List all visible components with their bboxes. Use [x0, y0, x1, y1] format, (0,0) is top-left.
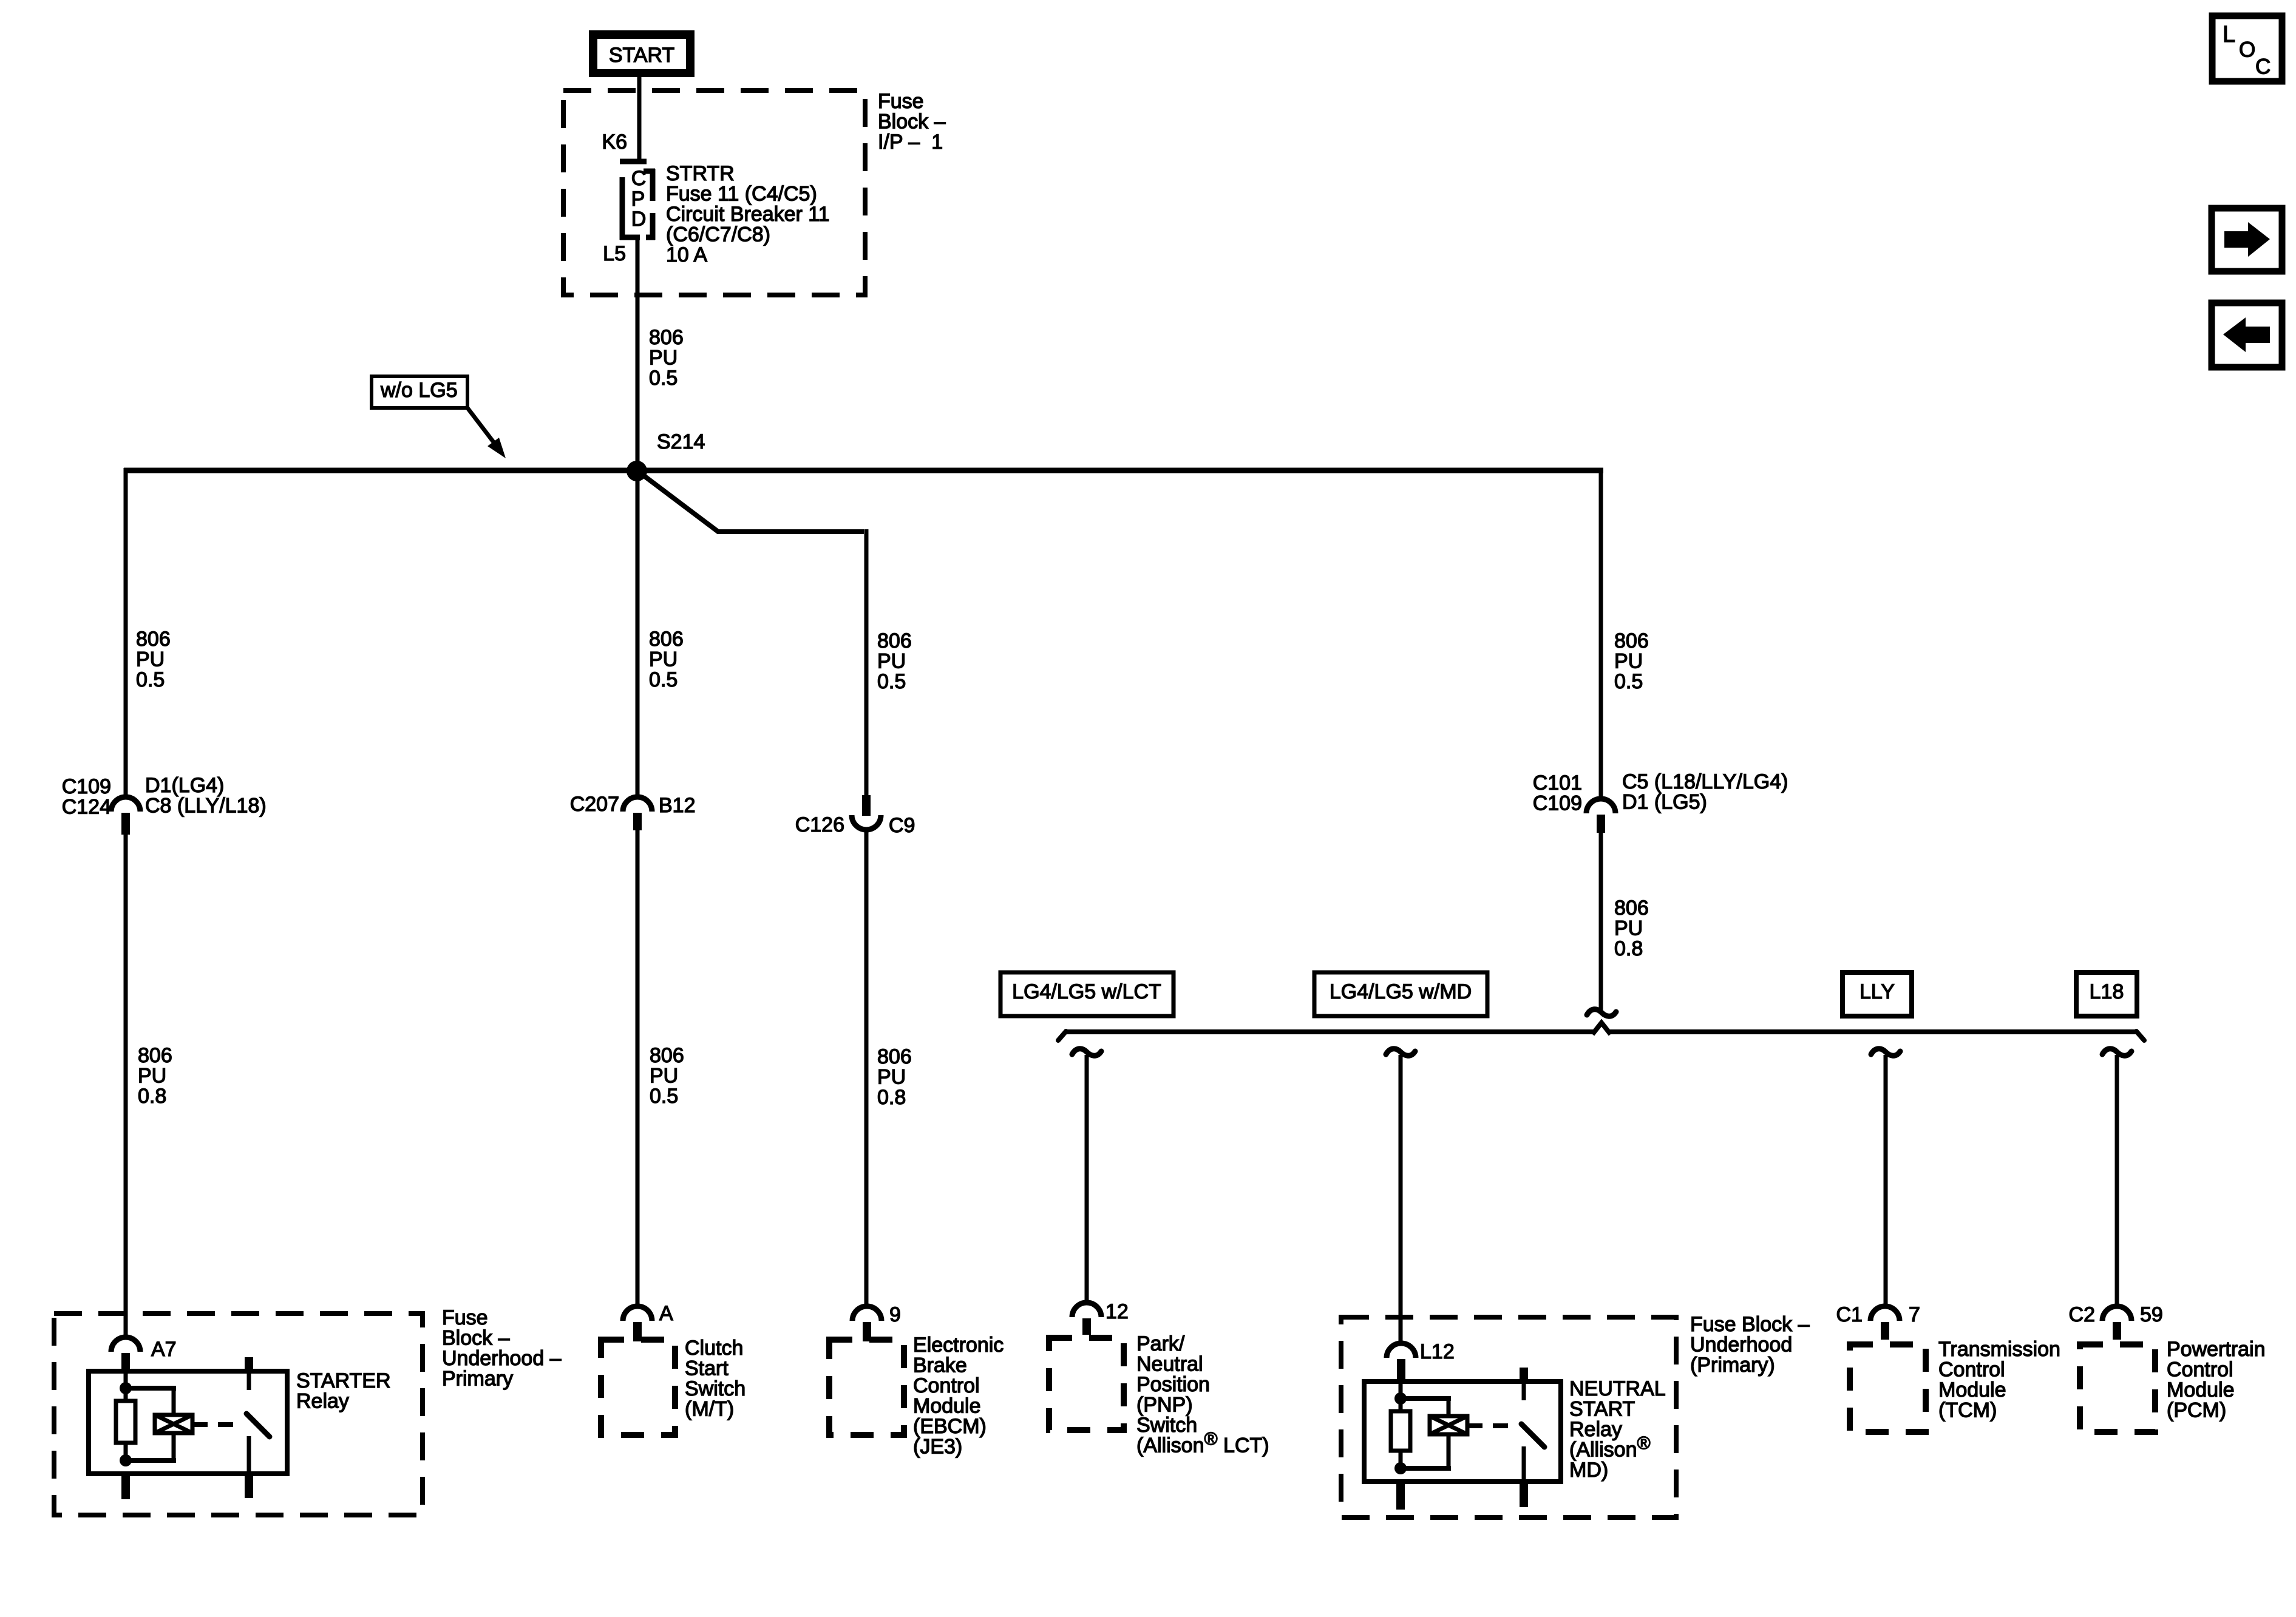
svg-text:Underhood: Underhood	[1690, 1334, 1792, 1357]
label 806 PU 0.5 (right branch)	[1614, 629, 1649, 693]
svg-text:B12: B12	[659, 794, 696, 817]
svg-text:C: C	[631, 167, 647, 190]
svg-text:PU: PU	[877, 1066, 906, 1089]
svg-text:Control: Control	[2167, 1358, 2233, 1381]
svg-text:PU: PU	[649, 648, 678, 671]
svg-text:Start: Start	[685, 1357, 729, 1380]
svg-text:806: 806	[649, 628, 684, 651]
svg-text:L5: L5	[603, 242, 626, 265]
wire bus drop to PCM	[2115, 1055, 2119, 1306]
svg-text:Switch: Switch	[685, 1377, 746, 1400]
svg-text:806: 806	[1614, 629, 1649, 653]
svg-text:Fuse: Fuse	[878, 90, 924, 113]
option box LLY	[1843, 972, 1912, 1016]
svg-text:0.8: 0.8	[877, 1086, 906, 1109]
svg-text:Fuse Block –: Fuse Block –	[1690, 1313, 1810, 1336]
svg-text:7: 7	[1909, 1303, 1920, 1326]
svg-text:C101: C101	[1533, 771, 1582, 795]
component TCM (dashed box)	[1850, 1344, 1926, 1432]
label D1(LG4) C8 (LLY/L18)	[145, 774, 267, 818]
svg-text:806: 806	[138, 1044, 172, 1067]
component Clutch Start Switch (dashed box)	[601, 1340, 675, 1435]
svg-text:0.5: 0.5	[649, 367, 678, 390]
svg-text:9: 9	[889, 1303, 901, 1326]
svg-text:Relay: Relay	[296, 1390, 349, 1413]
relay K - STARTER Relay	[89, 1371, 287, 1474]
svg-text:(Primary): (Primary)	[1690, 1354, 1775, 1377]
svg-text:PU: PU	[650, 1065, 678, 1088]
wire 806 PU to A7	[124, 835, 128, 1338]
svg-text:0.8: 0.8	[138, 1085, 166, 1108]
label NEUTRAL START Relay (Allison MD)	[1569, 1377, 1666, 1482]
svg-text:Control: Control	[1938, 1358, 2005, 1381]
svg-text:PU: PU	[136, 648, 165, 671]
svg-text:Block –: Block –	[878, 110, 946, 134]
svg-text:C109: C109	[62, 775, 111, 798]
label 806 PU 0.5	[649, 326, 684, 390]
bus connection bump at 806 PU joint	[1592, 1022, 1611, 1035]
label Fuse Block - I/P - 1	[878, 90, 946, 154]
component PCM (dashed box)	[2080, 1344, 2155, 1432]
wire 806 PU from fuse block to splice S214	[636, 240, 640, 470]
splice S214 junction dot	[627, 461, 647, 481]
svg-text:(JE3): (JE3)	[913, 1436, 962, 1459]
connector C126 pin C9	[852, 795, 881, 830]
wire diagonal from S214 to EBCM branch	[637, 470, 864, 532]
svg-text:PU: PU	[1614, 650, 1643, 673]
nav box arrow right	[2212, 208, 2282, 271]
label STRTR Fuse 11 ratings	[666, 162, 830, 266]
label C109 C124	[62, 775, 111, 819]
svg-text:Control: Control	[913, 1374, 980, 1397]
svg-text:NEUTRAL: NEUTRAL	[1569, 1377, 1666, 1400]
fuse STRTR Fuse 11 / Circuit Breaker 11 (CPD symbol)	[620, 159, 656, 240]
svg-text:L18: L18	[2090, 980, 2124, 1003]
connector C2 terminal 59	[2102, 1306, 2131, 1340]
label 806 PU 0.5 (middle branch)	[649, 628, 684, 691]
label Park/Neutral Position (PNP) Switch (Allison LCT)	[1136, 1332, 1269, 1457]
svg-text:L: L	[2223, 22, 2235, 47]
callout box w/o LG5	[372, 376, 467, 408]
svg-text:Underhood –: Underhood –	[442, 1347, 562, 1370]
splice tilde on PCM drop	[2102, 1049, 2131, 1056]
component EBCM (dashed box)	[829, 1340, 904, 1435]
svg-text:C207: C207	[570, 793, 619, 816]
svg-text:Fuse: Fuse	[442, 1306, 488, 1329]
wire left branch down to C109/C124	[124, 468, 128, 798]
svg-text:12: 12	[1106, 1300, 1129, 1323]
LOC legend box	[2212, 16, 2282, 81]
svg-text:w/o LG5: w/o LG5	[380, 379, 458, 402]
wire bus drop to PNP switch	[1085, 1055, 1089, 1303]
svg-text:Powertrain: Powertrain	[2167, 1338, 2266, 1361]
starter relay bottom switch post	[245, 1474, 253, 1498]
svg-text:Brake: Brake	[913, 1354, 967, 1377]
label Electronic Brake Control Module (EBCM) (JE3)	[913, 1334, 1004, 1459]
svg-text:I/P – 1: I/P – 1	[878, 131, 943, 154]
svg-text:C1: C1	[1836, 1303, 1863, 1326]
svg-text:C109: C109	[1533, 792, 1582, 815]
wire C207 to clutch start switch	[636, 830, 640, 1306]
svg-text:A7: A7	[151, 1338, 177, 1361]
label 806 PU 0.5 (middle lower)	[650, 1044, 684, 1108]
svg-text:Neutral: Neutral	[1136, 1353, 1203, 1376]
splice tilde on neutral start relay drop	[1386, 1049, 1415, 1056]
neutral relay top switch post	[1520, 1368, 1528, 1383]
label 806 PU 0.8 (left branch lower)	[138, 1044, 172, 1108]
svg-text:806: 806	[877, 1045, 912, 1068]
fuse block I/P housing (dashed)	[563, 90, 865, 295]
label Clutch Start Switch (M/T)	[685, 1337, 746, 1421]
connector C101 / C109 pin C5/D1	[1586, 799, 1615, 833]
svg-text:806: 806	[649, 326, 684, 349]
svg-text:MD): MD)	[1569, 1459, 1608, 1482]
relay K - NEUTRAL START Relay	[1364, 1381, 1561, 1482]
svg-text:S214: S214	[657, 430, 705, 453]
svg-text:Primary: Primary	[442, 1368, 513, 1391]
svg-text:PU: PU	[1614, 917, 1643, 940]
label 806 PU 0.5 (left branch)	[136, 628, 171, 691]
svg-text:806: 806	[650, 1044, 684, 1067]
wire bus drop to TCM	[1884, 1055, 1888, 1306]
svg-text:0.5: 0.5	[649, 668, 678, 691]
svg-text:806: 806	[1614, 897, 1649, 920]
svg-text:59: 59	[2140, 1303, 2163, 1326]
svg-text:Park/: Park/	[1136, 1332, 1185, 1355]
svg-text:Transmission: Transmission	[1938, 1338, 2060, 1361]
connector terminal 9	[852, 1306, 881, 1341]
callout arrow	[467, 408, 495, 444]
nav box arrow left	[2212, 303, 2282, 367]
svg-text:D: D	[631, 208, 647, 231]
svg-text:C124: C124	[62, 796, 111, 819]
engine option bus wire	[1058, 1029, 2144, 1040]
label Transmission Control Module (TCM)	[1938, 1338, 2060, 1422]
connector C207 pin B12	[623, 797, 652, 830]
svg-text:0.8: 0.8	[1614, 937, 1643, 960]
svg-text:(EBCM): (EBCM)	[913, 1415, 987, 1438]
svg-text:0.5: 0.5	[877, 670, 906, 693]
node START (ignition switch START feed)	[589, 30, 695, 77]
svg-text:O: O	[2239, 38, 2255, 62]
starter relay top switch post	[245, 1357, 253, 1373]
label 806 PU 0.8 (right lower)	[1614, 897, 1649, 960]
svg-text:Electronic: Electronic	[913, 1334, 1004, 1357]
label Powertrain Control Module (PCM)	[2167, 1338, 2266, 1422]
splice tilde on TCM drop	[1871, 1049, 1900, 1056]
svg-text:(PCM): (PCM)	[2167, 1399, 2226, 1422]
svg-text:806: 806	[136, 628, 171, 651]
svg-text:806: 806	[877, 629, 912, 653]
connector C109 / C124	[111, 797, 140, 835]
connector terminal A7	[111, 1337, 140, 1373]
svg-text:Module: Module	[2167, 1378, 2235, 1402]
svg-text:STARTER: STARTER	[296, 1369, 391, 1392]
svg-text:C126: C126	[795, 813, 844, 836]
svg-text:Clutch: Clutch	[685, 1337, 743, 1360]
svg-text:(TCM): (TCM)	[1938, 1399, 1997, 1422]
wire middle branch S214 to C207	[636, 470, 640, 798]
wire main horizontal run at S214	[124, 468, 1603, 473]
svg-text:STRTR: STRTR	[666, 162, 735, 185]
connector terminal 12	[1072, 1303, 1101, 1335]
svg-text:LG4/LG5 w/LCT: LG4/LG5 w/LCT	[1012, 980, 1161, 1003]
label C5 (L18/LLY/LG4) D1 (LG5)	[1622, 770, 1788, 814]
svg-text:0.5: 0.5	[136, 668, 165, 691]
option box LG4/LG5 w/LCT	[1000, 972, 1173, 1016]
svg-text:Block –: Block –	[442, 1327, 510, 1350]
svg-text:LG4/LG5 w/MD: LG4/LG5 w/MD	[1330, 980, 1472, 1003]
wire right branch down to C101/C109	[1599, 468, 1603, 799]
svg-text:LLY: LLY	[1860, 980, 1895, 1003]
label C101 C109	[1533, 771, 1582, 815]
label 806 PU 0.8 (EBCM lower)	[877, 1045, 912, 1109]
svg-text:Circuit Breaker 11: Circuit Breaker 11	[666, 203, 830, 226]
svg-text:C9: C9	[889, 814, 915, 837]
wire 806 PU 0.8 to engine option bus	[1599, 833, 1603, 1012]
neutral relay bottom coil post	[1396, 1482, 1405, 1510]
svg-text:(C6/C7/C8): (C6/C7/C8)	[666, 223, 770, 246]
svg-text:10 A: 10 A	[666, 243, 707, 266]
svg-text:C2: C2	[2069, 1303, 2095, 1326]
neutral relay bottom switch post	[1520, 1482, 1528, 1507]
svg-text:L12: L12	[1420, 1340, 1455, 1363]
connector terminal A	[623, 1306, 652, 1341]
label Fuse Block - Underhood (Primary)	[1690, 1313, 1810, 1377]
label STARTER Relay	[296, 1369, 391, 1413]
svg-text:K6: K6	[602, 131, 627, 154]
svg-text:START: START	[1569, 1398, 1635, 1421]
label 806 PU 0.5 (EBCM branch)	[877, 629, 912, 693]
svg-text:Relay: Relay	[1569, 1418, 1622, 1441]
svg-text:START: START	[609, 44, 674, 67]
label Fuse Block - Underhood - Primary	[442, 1306, 562, 1391]
starter relay bottom coil post	[121, 1474, 130, 1499]
svg-text:PU: PU	[877, 650, 906, 673]
fuse block underhood housing (dashed, starter relay)	[54, 1314, 423, 1515]
fuse block underhood primary housing (dashed, neutral start relay)	[1341, 1317, 1676, 1517]
svg-text:C: C	[2255, 55, 2271, 79]
option box L18	[2076, 972, 2137, 1016]
svg-text:Module: Module	[1938, 1378, 2006, 1402]
svg-text:C8 (LLY/L18): C8 (LLY/L18)	[145, 795, 267, 818]
option box LG4/LG5 w/MD	[1314, 972, 1487, 1016]
splice tilde on PNP switch drop	[1072, 1049, 1101, 1056]
svg-text:D1(LG4): D1(LG4)	[145, 774, 224, 797]
splice tilde above bus	[1587, 1009, 1616, 1017]
svg-text:D1 (LG5): D1 (LG5)	[1622, 791, 1707, 814]
wire bus drop to neutral start relay	[1399, 1055, 1403, 1343]
wire C126 to EBCM	[864, 830, 869, 1306]
svg-text:Position: Position	[1136, 1373, 1210, 1396]
connector C1 terminal 7	[1870, 1306, 1900, 1340]
connector terminal L12	[1387, 1343, 1416, 1383]
svg-text:PU: PU	[649, 347, 678, 370]
svg-text:Fuse 11 (C4/C5): Fuse 11 (C4/C5)	[666, 183, 817, 206]
wire START to fuse K6 terminal	[637, 77, 642, 159]
svg-text:PU: PU	[138, 1065, 166, 1088]
svg-text:Switch: Switch	[1136, 1414, 1197, 1437]
svg-text:A: A	[659, 1302, 673, 1325]
svg-text:C5 (L18/LLY/LG4): C5 (L18/LLY/LG4)	[1622, 770, 1788, 793]
svg-text:Module: Module	[913, 1395, 981, 1418]
svg-text:0.5: 0.5	[650, 1085, 678, 1108]
svg-text:(M/T): (M/T)	[685, 1398, 734, 1421]
svg-text:0.5: 0.5	[1614, 670, 1643, 693]
svg-text:(PNP): (PNP)	[1136, 1394, 1193, 1417]
component PNP Switch (dashed box)	[1049, 1338, 1124, 1430]
